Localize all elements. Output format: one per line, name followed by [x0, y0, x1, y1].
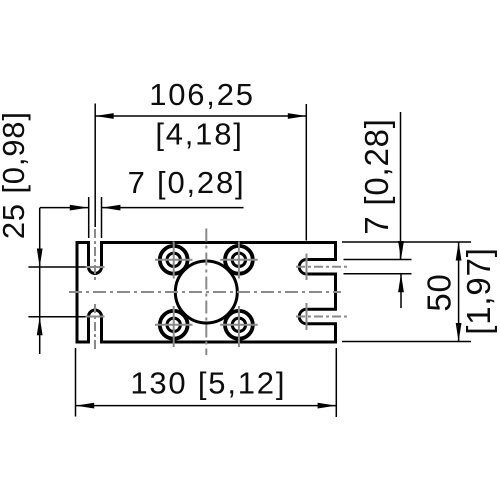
dim 50 arrow up	[456, 242, 462, 261]
dim 25 extension line upper	[28, 266, 85, 268]
bolt hole bottom-right outer	[225, 311, 253, 339]
dim 25 extension line lower	[28, 316, 85, 318]
top-left slot center tick	[86, 266, 105, 268]
svg-text:106,25: 106,25	[149, 77, 255, 112]
bolt top-right crosshair	[220, 259, 258, 261]
dim 50 arrow down	[456, 323, 462, 342]
dim 106,25 arrow left	[95, 113, 114, 119]
bottom-right slot center tick	[306, 303, 308, 330]
dim 106,25 extension line left	[94, 104, 96, 228]
dim 7 top dimension line tails	[40, 207, 88, 209]
dim 25 arrow pointing up	[37, 317, 43, 336]
dim 130 extension line right	[335, 348, 337, 417]
dim 130 arrow right	[318, 403, 337, 409]
dim 106,25 dimension line	[95, 115, 306, 117]
dim 130 dimension line	[76, 405, 336, 407]
bolt bottom-left crosshair	[155, 324, 193, 326]
svg-text:50: 50	[420, 273, 457, 311]
bolt hole bottom-right inner	[232, 318, 245, 331]
bolt hole top-left outer	[160, 246, 188, 274]
bottom-left slot center tick	[86, 316, 105, 318]
dim 7 top arrow pointing right	[70, 205, 89, 211]
dim 7 right extension line lower	[344, 273, 412, 275]
dim 7 top extension line right	[101, 197, 103, 238]
bolt top-left crosshair	[155, 259, 193, 261]
dim 106,25 arrow right	[288, 113, 307, 119]
main horizontal centerline	[69, 291, 341, 293]
svg-text:7 [0,28]: 7 [0,28]	[128, 165, 246, 200]
dim 7 right arrow pointing up	[398, 274, 404, 293]
dim 130 extension line left	[75, 348, 77, 417]
bolt hole top-left inner	[167, 253, 180, 266]
dim 130 arrow left	[76, 403, 95, 409]
bolt bottom-right crosshair	[220, 324, 258, 326]
top-left slot centerline vertical	[94, 229, 96, 280]
svg-text:7 [0,28]: 7 [0,28]	[358, 118, 395, 235]
svg-text:25 [0,98]: 25 [0,98]	[0, 111, 31, 239]
dim 25 arrow pointing down	[37, 249, 43, 268]
dim 106,25 extension line right	[305, 104, 307, 241]
dim 50 extension line top	[342, 241, 471, 243]
svg-text:[4,18]: [4,18]	[155, 117, 243, 152]
dim 25 dimension line	[39, 208, 41, 354]
dim 50 dimension line	[458, 242, 460, 342]
dim 50 extension line bottom	[342, 341, 471, 343]
bolt hole bottom-left inner	[167, 318, 180, 331]
dim 7 top arrow pointing left	[102, 205, 121, 211]
main vertical centerline	[205, 229, 207, 356]
dim 7 top extension line left	[88, 197, 90, 238]
bottom-right slot centerline horizontal	[296, 316, 347, 318]
bolt hole bottom-left outer	[160, 311, 188, 339]
top-right slot centerline horizontal	[296, 266, 347, 268]
svg-text:130 [5,12]: 130 [5,12]	[130, 365, 286, 400]
bolt hole top-right outer	[225, 246, 253, 274]
svg-text:[1,97]: [1,97]	[460, 247, 497, 334]
bolt hole top-right inner	[232, 253, 245, 266]
bottom-left slot centerline vertical	[94, 304, 96, 352]
dim 7 right dimension line tails	[400, 112, 402, 259]
plate outline with mounting slots	[77, 243, 336, 343]
dim 7 right extension line upper	[344, 259, 412, 261]
big center bore circle	[175, 261, 237, 323]
top-right slot center tick	[306, 254, 308, 281]
dim 7 right arrow pointing down	[398, 241, 404, 260]
